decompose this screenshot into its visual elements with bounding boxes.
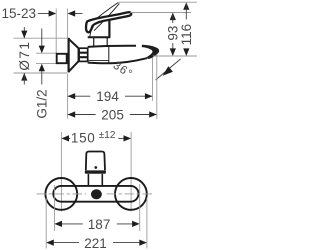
svg-text:±12: ±12 <box>99 130 116 141</box>
svg-text:G1/2: G1/2 <box>34 89 49 118</box>
escutcheon cone top <box>68 39 78 48</box>
cartridge dome base <box>88 36 111 38</box>
svg-text:Ø71: Ø71 <box>17 41 32 71</box>
centerline right circle <box>107 193 153 195</box>
escutcheon wall face <box>67 38 69 73</box>
extension line wall-left (15-23 left) <box>55 9 57 54</box>
extension line lever raised top (116 top) <box>119 1 197 3</box>
dimension 194 <box>68 95 91 97</box>
union nut block <box>79 48 88 61</box>
escutcheon cone bottom <box>68 62 78 72</box>
cartridge dome fill <box>90 20 110 37</box>
handle front view <box>86 152 105 171</box>
spout tip (aerator end) <box>142 45 159 59</box>
body top edge <box>88 46 136 47</box>
svg-text:150: 150 <box>71 131 96 146</box>
right escutcheon circle <box>115 178 147 210</box>
centerline left circle <box>37 193 87 195</box>
lever raised phantom lines <box>88 2 119 25</box>
body joint line <box>108 47 110 64</box>
left escutcheon circle <box>45 178 77 210</box>
extension line lever top (93 top) <box>130 12 191 14</box>
dimension G1/2 <box>36 52 56 54</box>
extension line wall face / 194-205 left <box>67 9 69 39</box>
svg-text:187: 187 <box>88 217 111 232</box>
svg-text:221: 221 <box>84 236 107 250</box>
extension line spout outlet (93/116 bottom) <box>153 55 197 57</box>
cartridge dome left edge <box>90 26 94 37</box>
dimension 93 <box>170 13 176 21</box>
handle screw dot <box>94 166 97 169</box>
dimension 205 <box>68 114 96 116</box>
body (stadium) <box>53 186 138 202</box>
stream direction arrow (36°) <box>156 59 181 80</box>
cartridge neck sides <box>93 38 95 47</box>
svg-text:194: 194 <box>96 89 119 104</box>
body lower highlight line <box>88 59 109 61</box>
escutcheon neck face <box>77 47 79 62</box>
dimension Ø71 <box>14 37 68 39</box>
wall connection square G1/2 <box>57 54 67 63</box>
lever handle (solid) <box>86 12 131 32</box>
cartridge neck front <box>87 174 89 186</box>
dimension 221 <box>45 198 47 249</box>
extension+center line right connection <box>130 132 132 212</box>
handle base band <box>85 170 106 173</box>
svg-text:116: 116 <box>179 24 194 46</box>
dimension 116 <box>183 2 189 10</box>
aerator outlet (front) <box>91 189 102 199</box>
cartridge dome right face <box>108 19 110 37</box>
svg-text:15-23: 15-23 <box>2 6 37 21</box>
svg-text:205: 205 <box>101 107 124 122</box>
dimension 187 <box>53 185 55 231</box>
extension+center line left connection <box>60 132 62 212</box>
body bottom edge <box>88 58 147 63</box>
dimension 150±12 <box>61 135 69 141</box>
